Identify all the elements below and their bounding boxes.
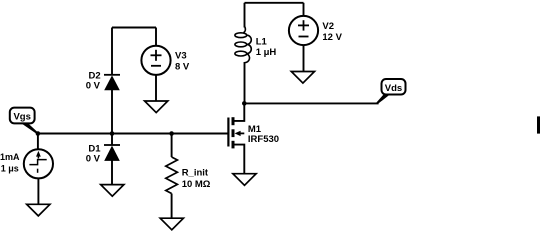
svg-text:1mA: 1mA [0,152,20,162]
svg-text:Vgs: Vgs [13,112,30,123]
wire M1 source lead [235,145,245,174]
ground under current source [27,204,50,216]
ground under resistor [160,218,183,230]
svg-text:IRF530: IRF530 [248,134,279,145]
junction dot gate net at resistor [169,131,174,136]
wire current source bottom to ground [37,178,39,204]
wire drain node to Vds flag [244,102,378,104]
wire gate net down to resistor [171,134,173,158]
wire D1 anode to ground [111,161,113,185]
junction dot gate net at current source [36,131,41,136]
node Vgs flag [10,108,39,135]
partial element at right edge [537,116,540,133]
svg-text:L1: L1 [256,36,268,47]
svg-text:R_init: R_init [182,167,209,178]
wire L1 top lead [244,3,246,28]
ground under D1 [101,185,124,197]
junction dot drain node [242,101,247,106]
wire gate net horizontal [38,133,228,135]
svg-text:1 μs: 1 μs [1,163,19,173]
svg-text:8 V: 8 V [175,61,190,72]
svg-text:1 μH: 1 μH [256,47,277,58]
transistor M1 IRF530 [228,117,244,148]
current source I1 (pulse) [24,149,53,178]
resistor R_init [166,157,178,194]
wire V3 top lead [155,28,157,47]
svg-text:V3: V3 [175,50,187,61]
wire D2 top to V3 top horizontal [112,27,156,29]
wire L1 bottom lead to drain node [244,62,246,103]
wire V2 bottom to ground [303,45,305,71]
wire Vgs junction to current source top [37,134,39,151]
wire V3 bottom to ground [155,75,157,101]
diode D2 [104,75,120,90]
node Vds flag [376,79,405,104]
wire D2 cathode up [111,28,113,75]
diode D1 [104,145,120,161]
ground under V3 [145,101,168,113]
svg-text:10 MΩ: 10 MΩ [182,179,211,190]
ground under V2 [291,72,314,84]
svg-text:0 V: 0 V [86,154,101,165]
junction dot gate net at diodes [110,131,115,136]
ground under M1 source [233,174,256,186]
svg-text:0 V: 0 V [86,81,101,92]
wire M1 drain lead [235,103,245,121]
voltage source V2 [289,16,318,45]
voltage source V3 [141,46,170,75]
wire D2 anode down to gate net [111,89,113,134]
wire top net horizontal [245,2,304,4]
svg-text:12 V: 12 V [322,32,342,43]
svg-text:V2: V2 [322,21,334,32]
wire resistor bottom to ground [171,194,173,219]
wire gate net down to D1 cathode [111,134,113,146]
svg-text:Vds: Vds [385,83,402,94]
wire V2 top lead [303,3,305,16]
inductor L1 [235,26,251,63]
